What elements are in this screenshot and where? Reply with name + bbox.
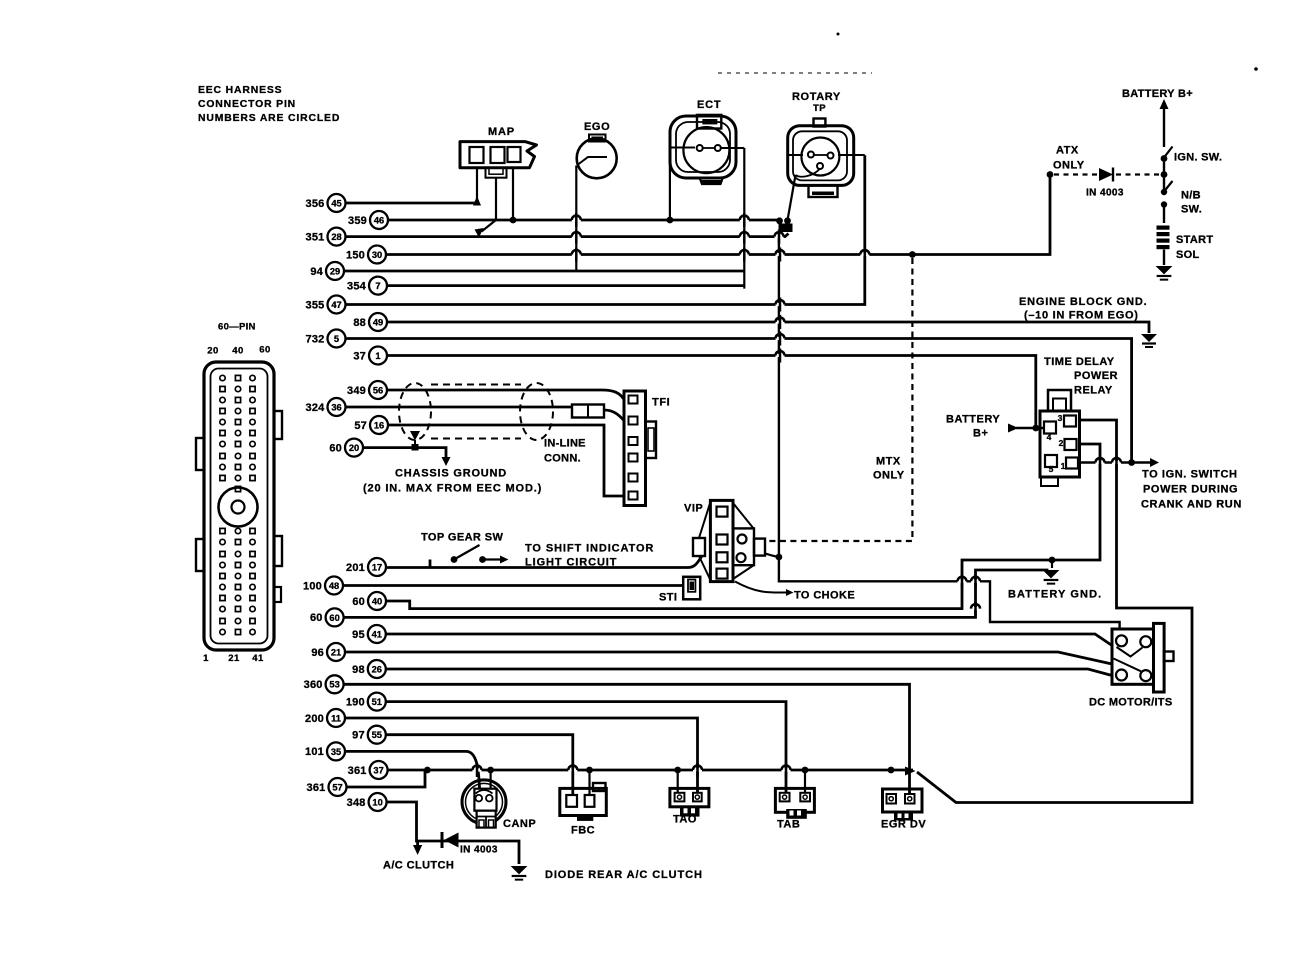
- svg-text:354: 354: [347, 280, 367, 292]
- svg-text:35: 35: [331, 747, 341, 757]
- svg-text:26: 26: [372, 664, 382, 674]
- svg-text:40: 40: [232, 346, 244, 357]
- svg-text:A/C CLUTCH: A/C CLUTCH: [383, 860, 454, 872]
- svg-text:5: 5: [334, 334, 339, 344]
- svg-text:SOL: SOL: [1176, 249, 1200, 261]
- svg-text:DIODE REAR A/C CLUTCH: DIODE REAR A/C CLUTCH: [545, 869, 703, 881]
- svg-text:N/B: N/B: [1181, 190, 1201, 202]
- svg-text:EEC HARNESS: EEC HARNESS: [198, 85, 282, 96]
- svg-text:98: 98: [352, 664, 365, 676]
- svg-text:IN 4003: IN 4003: [460, 845, 498, 856]
- svg-text:29: 29: [330, 266, 340, 276]
- svg-text:1: 1: [375, 351, 380, 361]
- svg-text:B+: B+: [973, 428, 988, 440]
- svg-text:TAO: TAO: [673, 814, 697, 826]
- svg-text:RELAY: RELAY: [1074, 385, 1113, 397]
- svg-text:ONLY: ONLY: [873, 470, 905, 482]
- svg-text:IN 4003: IN 4003: [1086, 188, 1124, 199]
- svg-text:4: 4: [1047, 432, 1052, 442]
- svg-text:BATTERY GND.: BATTERY GND.: [1008, 589, 1102, 601]
- svg-text:60: 60: [329, 613, 339, 623]
- svg-text:49: 49: [373, 317, 383, 327]
- svg-text:2: 2: [1059, 438, 1064, 448]
- svg-text:CANP: CANP: [503, 818, 536, 830]
- svg-text:20: 20: [207, 346, 219, 357]
- svg-text:FBC: FBC: [571, 825, 595, 837]
- svg-text:21: 21: [228, 653, 240, 664]
- svg-text:BATTERY: BATTERY: [946, 414, 1000, 426]
- svg-text:348: 348: [347, 797, 366, 809]
- svg-text:STI: STI: [659, 592, 677, 604]
- svg-text:360: 360: [304, 679, 323, 691]
- svg-text:TO IGN. SWITCH: TO IGN. SWITCH: [1142, 469, 1238, 481]
- svg-text:17: 17: [372, 562, 382, 572]
- svg-text:41: 41: [372, 629, 382, 639]
- svg-text:20: 20: [349, 443, 359, 453]
- svg-text:VIP: VIP: [684, 503, 703, 515]
- svg-text:21: 21: [331, 647, 341, 657]
- svg-text:MTX: MTX: [876, 456, 901, 468]
- svg-text:TAB: TAB: [777, 819, 800, 831]
- svg-text:88: 88: [353, 317, 366, 329]
- svg-text:55: 55: [372, 730, 382, 740]
- svg-text:IN-LINE: IN-LINE: [544, 438, 586, 450]
- svg-text:40: 40: [372, 596, 382, 606]
- svg-text:CRANK AND RUN: CRANK AND RUN: [1141, 499, 1242, 511]
- svg-text:ENGINE BLOCK GND.: ENGINE BLOCK GND.: [1019, 296, 1148, 308]
- svg-text:CONN.: CONN.: [544, 453, 581, 465]
- svg-text:41: 41: [252, 653, 264, 664]
- svg-text:56: 56: [373, 385, 383, 395]
- svg-text:46: 46: [374, 215, 384, 225]
- svg-text:1: 1: [203, 653, 209, 664]
- svg-text:ATX: ATX: [1056, 145, 1079, 157]
- svg-text:60: 60: [259, 345, 271, 356]
- svg-text:96: 96: [311, 647, 324, 659]
- svg-text:349: 349: [347, 385, 366, 397]
- svg-text:324: 324: [306, 402, 326, 414]
- svg-text:ONLY: ONLY: [1053, 160, 1085, 172]
- svg-text:200: 200: [305, 713, 324, 725]
- svg-text:359: 359: [348, 215, 367, 227]
- svg-text:48: 48: [329, 581, 339, 591]
- svg-text:10: 10: [372, 797, 382, 807]
- svg-text:190: 190: [346, 696, 365, 708]
- svg-text:1: 1: [1061, 461, 1066, 471]
- svg-text:TO CHOKE: TO CHOKE: [794, 590, 855, 602]
- svg-text:TIME DELAY: TIME DELAY: [1044, 356, 1115, 368]
- svg-text:MAP: MAP: [488, 126, 515, 138]
- svg-text:(20 IN. MAX FROM EEC MOD.): (20 IN. MAX FROM EEC MOD.): [363, 483, 542, 495]
- svg-text:47: 47: [331, 300, 341, 310]
- svg-text:37: 37: [373, 765, 383, 775]
- svg-text:36: 36: [331, 402, 341, 412]
- svg-text:356: 356: [306, 198, 325, 210]
- svg-text:60: 60: [352, 596, 365, 608]
- svg-text:ECT: ECT: [697, 99, 721, 111]
- svg-text:51: 51: [372, 697, 382, 707]
- svg-text:7: 7: [375, 281, 380, 291]
- svg-text:DC MOTOR/ITS: DC MOTOR/ITS: [1089, 697, 1172, 709]
- svg-text:LIGHT CIRCUIT: LIGHT CIRCUIT: [525, 557, 617, 569]
- svg-text:11: 11: [331, 713, 341, 723]
- svg-text:57: 57: [332, 782, 342, 792]
- svg-text:NUMBERS ARE CIRCLED: NUMBERS ARE CIRCLED: [198, 113, 340, 124]
- svg-text:101: 101: [305, 746, 324, 758]
- svg-text:IGN. SW.: IGN. SW.: [1174, 152, 1222, 164]
- svg-text:START: START: [1176, 234, 1213, 246]
- svg-text:57: 57: [354, 420, 367, 432]
- svg-text:3: 3: [1058, 413, 1063, 423]
- svg-text:TOP GEAR SW: TOP GEAR SW: [421, 532, 503, 544]
- svg-text:ROTARY: ROTARY: [792, 91, 841, 103]
- svg-text:53: 53: [329, 680, 339, 690]
- svg-text:POWER: POWER: [1074, 370, 1118, 382]
- svg-text:BATTERY B+: BATTERY B+: [1122, 88, 1193, 100]
- svg-text:60: 60: [329, 442, 342, 454]
- svg-text:TO SHIFT INDICATOR: TO SHIFT INDICATOR: [525, 543, 654, 555]
- svg-text:60: 60: [310, 612, 323, 624]
- svg-text:SW.: SW.: [1181, 204, 1202, 216]
- svg-text:94: 94: [310, 266, 323, 278]
- svg-text:TFI: TFI: [652, 397, 670, 409]
- svg-text:100: 100: [303, 580, 322, 592]
- svg-text:30: 30: [372, 250, 382, 260]
- svg-text:95: 95: [352, 629, 365, 641]
- svg-text:37: 37: [353, 350, 366, 362]
- svg-text:5: 5: [1049, 464, 1054, 474]
- svg-text:28: 28: [331, 232, 341, 242]
- svg-text:TP: TP: [813, 103, 826, 114]
- svg-text:355: 355: [306, 299, 325, 311]
- svg-text:45: 45: [331, 198, 341, 208]
- svg-text:97: 97: [352, 730, 365, 742]
- svg-text:16: 16: [374, 420, 384, 430]
- svg-text:150: 150: [346, 249, 365, 261]
- svg-text:EGO: EGO: [584, 121, 610, 133]
- svg-text:351: 351: [306, 231, 325, 243]
- svg-text:EGR DV: EGR DV: [881, 819, 926, 831]
- svg-text:POWER DURING: POWER DURING: [1143, 484, 1238, 496]
- svg-text:CONNECTOR PIN: CONNECTOR PIN: [198, 99, 296, 110]
- svg-text:(–10 IN FROM EGO): (–10 IN FROM EGO): [1024, 310, 1139, 322]
- svg-text:361: 361: [348, 765, 367, 777]
- svg-text:201: 201: [346, 562, 365, 574]
- svg-text:60—PIN: 60—PIN: [218, 322, 256, 333]
- svg-text:CHASSIS GROUND: CHASSIS GROUND: [395, 468, 507, 480]
- svg-text:732: 732: [306, 333, 325, 345]
- svg-text:361: 361: [307, 782, 326, 794]
